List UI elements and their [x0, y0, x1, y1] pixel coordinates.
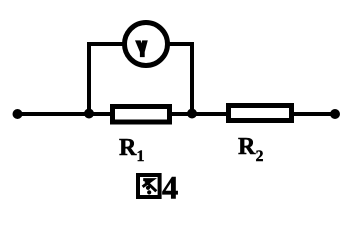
resistor R2 (box): [229, 106, 292, 121]
node (right terminal dot): [330, 109, 340, 119]
resistor R1 (box): [113, 107, 170, 123]
wire (voltmeter branch, left side: junction A up and right to voltmeter): [89, 44, 125, 114]
wire (R1 right to junction B to R2 left): [170, 112, 228, 116]
voltmeter U1 (circle body): [125, 23, 168, 66]
node (junction A, left voltmeter tap): [84, 109, 94, 119]
wire (left terminal to junction A and on to R1): [17, 112, 112, 116]
svg-text:4: 4: [162, 171, 178, 207]
svg-text:1: 1: [137, 148, 145, 165]
svg-text:R: R: [238, 134, 256, 160]
wire (R2 right to right terminal): [292, 112, 335, 116]
wire (voltmeter branch, right side: voltmeter to corner and down to junction B): [167, 44, 192, 114]
svg-text:2: 2: [256, 148, 264, 165]
node (junction B, right voltmeter tap): [187, 109, 197, 119]
voltmeter U1 (V symbol): [135, 40, 148, 57]
svg-text:R: R: [119, 135, 137, 161]
node (left terminal dot): [13, 109, 23, 119]
caption 图 (figure character, drawn): [138, 175, 160, 197]
